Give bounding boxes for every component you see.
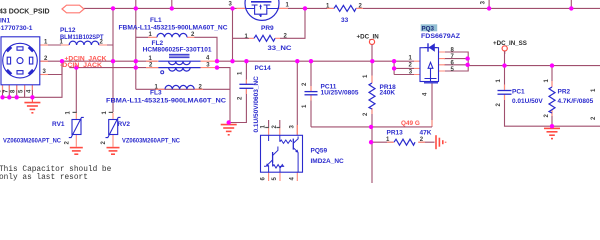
wire PC14 branch bbox=[229, 61, 247, 122]
wire vertical riser x232.5 (top wire to mid rail) bbox=[232, 8, 234, 61]
svg-text:4.7K/F/0805: 4.7K/F/0805 bbox=[558, 98, 594, 105]
svg-text:PR9: PR9 bbox=[261, 25, 274, 32]
svg-text:+DC_IN: +DC_IN bbox=[357, 33, 380, 40]
wire ground riser x69.3 and ground rail y97.3 bbox=[3, 61, 63, 97]
off-page connector diamond bbox=[62, 5, 84, 13]
svg-text:BLM11B102SPT: BLM11B102SPT bbox=[60, 34, 104, 41]
ferrite bead PL12 bbox=[69, 41, 99, 45]
svg-text:240K: 240K bbox=[380, 90, 396, 97]
inductor FL1 bbox=[157, 33, 187, 37]
inductor FL3 bbox=[165, 85, 194, 89]
tick RV1 top bbox=[73, 111, 77, 113]
svg-text:IMD2A_NC: IMD2A_NC bbox=[311, 158, 345, 165]
resistor PR2 (vertical) bbox=[549, 87, 555, 113]
pins 1 2 3 PQ59 bbox=[261, 125, 296, 129]
tick RV2 top bbox=[109, 111, 113, 113]
varistor RV2 bbox=[106, 117, 121, 137]
svg-text:PL12: PL12 bbox=[60, 27, 76, 34]
ground (earth) rotated right of PR13 bbox=[436, 135, 446, 149]
common mode choke FL2 bbox=[158, 54, 200, 73]
svg-text:IN1: IN1 bbox=[0, 18, 11, 25]
svg-text:FBMA-L11-453215-900LMA60T_NC: FBMA-L11-453215-900LMA60T_NC bbox=[119, 25, 228, 32]
wire PQ3 gate bracket x394 bbox=[394, 61, 414, 74]
svg-text:-1770730-1: -1770730-1 bbox=[0, 25, 33, 32]
svg-text:Q49 G: Q49 G bbox=[401, 120, 420, 127]
mosfet PQ3 bbox=[420, 43, 439, 83]
svg-text:0.1U/50V/0603_NC: 0.1U/50V/0603_NC bbox=[253, 76, 260, 133]
ground (earth) under RV2 bbox=[107, 148, 120, 155]
svg-text:PC14: PC14 bbox=[255, 65, 272, 72]
svg-text:FL1: FL1 bbox=[150, 17, 162, 24]
svg-text:-DCIN_JACK: -DCIN_JACK bbox=[60, 62, 102, 69]
wire PQ3 pin4 drop bbox=[431, 84, 433, 127]
svg-text:HCM806025F-330T101: HCM806025F-330T101 bbox=[143, 47, 212, 54]
tick PQ59 pin1 bbox=[265, 127, 269, 129]
tick PQ59 pin2 bbox=[276, 127, 280, 129]
wire PR18 / +DC_IN column x372 bbox=[371, 51, 373, 183]
svg-text:33: 33 bbox=[341, 17, 349, 24]
wire PR13 net y142.2 bbox=[371, 141, 434, 143]
ground (earth) under RV1 bbox=[70, 148, 83, 155]
resistor PR9 (33_NC) bbox=[254, 35, 275, 41]
wire stub up x571 bbox=[570, 0, 572, 8]
connector bottom pin numbers bbox=[0, 89, 32, 93]
svg-text:FL3: FL3 bbox=[150, 89, 162, 96]
svg-text:+DC_IN_SS: +DC_IN_SS bbox=[493, 40, 527, 47]
wire +DCIN_JACK y61.2 bbox=[40, 60, 157, 62]
wire PQ3 drain bracket to +DC_IN_SS rail bbox=[444, 52, 600, 71]
svg-text:1U/25V/0805: 1U/25V/0805 bbox=[321, 90, 359, 97]
wire PL12 net y44.3 bbox=[40, 44, 113, 46]
svg-text:RV1: RV1 bbox=[52, 121, 65, 128]
wire stub up x489 bbox=[488, 0, 490, 8]
pin stubs (salmon) bbox=[3, 8, 553, 181]
resistor 33 (top, inline) bbox=[334, 5, 356, 11]
wire stub up x171.8 bbox=[171, 0, 173, 8]
wire PC11 branch bbox=[310, 61, 312, 127]
wire connector pin3 jog bbox=[40, 61, 62, 74]
svg-text:This Capacitor should be: This Capacitor should be bbox=[0, 166, 112, 174]
capacitor PC1 bbox=[498, 91, 512, 95]
wire bottom net y126.9 (PC11 - PR18 - PQ3 pin4) bbox=[311, 126, 432, 128]
wire top horizontal net +DCIN bbox=[84, 7, 600, 9]
wire RV1 riser bbox=[75, 68, 77, 113]
wire FL2 pin3 to FL3 loop bbox=[136, 68, 230, 123]
svg-text:RV2: RV2 bbox=[118, 121, 131, 128]
capacitor PC14 bbox=[239, 84, 253, 88]
wire PQ59 pin3 riser bbox=[296, 61, 298, 135]
svg-text:PQ59: PQ59 bbox=[311, 147, 328, 154]
varistor RV1 bbox=[69, 117, 84, 137]
wire PR9 bypass loop bbox=[233, 8, 306, 38]
pins 6 5 4 PQ59 bbox=[261, 177, 296, 181]
wire +DC_IN_SS column / PC1 bbox=[505, 51, 600, 126]
ground (earth) under PC14 node bbox=[221, 125, 237, 135]
svg-text:PQ3: PQ3 bbox=[422, 26, 435, 33]
wire PR2 column bbox=[551, 66, 553, 128]
dual transistor PQ59 bbox=[261, 135, 303, 172]
svg-text:47K: 47K bbox=[420, 129, 432, 136]
svg-text:only as last resort: only as last resort bbox=[0, 174, 88, 182]
svg-text:FBMA-L11-453215-900LMA60T_NC: FBMA-L11-453215-900LMA60T_NC bbox=[106, 97, 226, 104]
power symbol +DC_IN_SS bbox=[502, 46, 507, 51]
connector IN1 (DC jack) bbox=[1, 37, 40, 85]
svg-text:PR2: PR2 bbox=[558, 88, 571, 95]
ground (earth) under PR2 bbox=[544, 128, 560, 138]
svg-text:VZ0603M260APT_NC: VZ0603M260APT_NC bbox=[122, 138, 180, 145]
resistor PR18 (vertical) bbox=[369, 83, 375, 109]
wire PQ59 pin1 pin2 stubs upper bbox=[269, 120, 280, 128]
power symbol +DC_IN bbox=[369, 39, 374, 44]
wire FL1 loop y37.3 bbox=[136, 37, 217, 61]
svg-text:VZ0603M260APT_NC: VZ0603M260APT_NC bbox=[3, 138, 61, 145]
wire vertical riser x135.8 (off-sheet top to FL3) bbox=[135, 0, 137, 89]
svg-text:PC1: PC1 bbox=[512, 88, 525, 95]
transistor TR (circle MOSFET, cut at top) bbox=[245, 0, 279, 20]
resistor PR13 (horizontal) bbox=[394, 139, 415, 145]
ground (earth) under connector bbox=[24, 97, 40, 113]
wire mid rail y61.2 (FL2 pin4 to PQ3 pin1) bbox=[215, 60, 414, 62]
svg-text:43 DOCK_PSID: 43 DOCK_PSID bbox=[0, 8, 50, 15]
svg-text:PR13: PR13 bbox=[387, 129, 404, 136]
svg-text:0.01U/50V: 0.01U/50V bbox=[512, 98, 543, 105]
wire vertical riser x113 (top wire to RV2) bbox=[112, 8, 114, 112]
svg-text:33_NC: 33_NC bbox=[268, 45, 292, 52]
svg-text:FDS6679AZ: FDS6679AZ bbox=[421, 33, 460, 40]
wire -DCIN_JACK y68.7 bbox=[69, 67, 158, 69]
capacitor PC11 bbox=[305, 92, 318, 95]
highlight PQ3 bbox=[421, 24, 438, 31]
